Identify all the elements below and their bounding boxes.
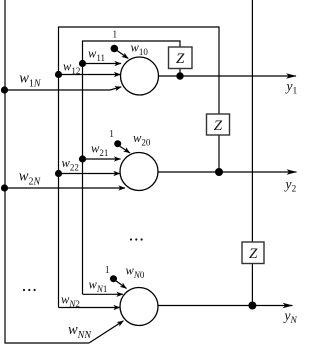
wire: right feedback riser (delayed yN) x=252 through Z3 bbox=[251, 0, 253, 306]
junction w_11 tap bbox=[79, 60, 86, 67]
junction on y2 line at Z2 riser bbox=[215, 168, 223, 176]
svg-text:1: 1 bbox=[109, 128, 115, 140]
svg-text:wN0: wN0 bbox=[126, 264, 145, 281]
bias terminal dot U1 bbox=[111, 45, 119, 53]
svg-text:yN: yN bbox=[283, 308, 298, 326]
bias input arrow into U2 bbox=[120, 146, 130, 153]
junction on y1 line at Z1 stem bbox=[176, 72, 183, 79]
ellipsis between U2 and U3 bbox=[130, 238, 143, 240]
wire: left feedback bus (delayed yN) down left edge and along bottom bbox=[5, 0, 89, 343]
delay block Z3 bbox=[242, 242, 264, 264]
svg-text:Z: Z bbox=[176, 51, 185, 67]
wire: delayed y1 bus: stem from Z1 top, run y=41, riser x=82.5 bbox=[83, 41, 181, 294]
wire: w_12 input into neuron U1 bbox=[59, 74, 121, 76]
delay block Z1 bbox=[169, 47, 193, 69]
svg-text:y1: y1 bbox=[285, 79, 298, 97]
junction w_22 tap bbox=[55, 170, 62, 177]
svg-text:w2N: w2N bbox=[19, 169, 42, 188]
bias input arrow into U1 bbox=[116, 50, 128, 59]
ellipsis on left bus bbox=[23, 289, 36, 291]
wire: delayed y2 bus: riser from Z2, top run y=27, left riser x=58.5 bbox=[59, 27, 220, 308]
wire: y1 output line bbox=[159, 75, 297, 77]
svg-text:Z: Z bbox=[214, 118, 223, 134]
svg-text:1: 1 bbox=[105, 264, 111, 276]
svg-text:1: 1 bbox=[112, 29, 118, 41]
svg-text:w10: w10 bbox=[131, 41, 149, 58]
junction w_21 tap bbox=[79, 155, 86, 162]
delay block Z2 bbox=[207, 114, 230, 135]
svg-text:wN2: wN2 bbox=[61, 293, 80, 310]
wire: Z1 output stem to y1 junction bbox=[179, 69, 181, 77]
junction w_12 tap bbox=[55, 71, 62, 78]
neuron U3 bbox=[120, 288, 158, 326]
svg-text:w21: w21 bbox=[91, 142, 108, 159]
wire: w_1N input into neuron U1 bbox=[5, 87, 122, 90]
wire: w_N1 input into neuron U3 bbox=[83, 293, 124, 295]
svg-text:w11: w11 bbox=[88, 47, 105, 64]
svg-text:Z: Z bbox=[249, 246, 258, 262]
bias input arrow into U3 bbox=[116, 281, 127, 289]
bias terminal dot U2 bbox=[114, 140, 121, 147]
wire: w_N2 input into neuron U3 bbox=[59, 307, 121, 309]
junction on yN line at Z3 riser bbox=[248, 302, 256, 310]
svg-text:w1N: w1N bbox=[19, 71, 42, 90]
wire: w_2N input into neuron U2 bbox=[5, 187, 126, 189]
neuron U1 bbox=[121, 57, 159, 95]
svg-text:wN1: wN1 bbox=[89, 278, 108, 295]
wire: yN output line bbox=[158, 305, 293, 307]
svg-text:y2: y2 bbox=[284, 177, 297, 195]
wire: y2 output line bbox=[158, 171, 297, 173]
wire: w_11 input into neuron U1 bbox=[83, 63, 122, 65]
svg-text:w20: w20 bbox=[133, 131, 151, 148]
junction w_2N tap bbox=[1, 184, 8, 191]
bias terminal dot U3 bbox=[110, 275, 117, 282]
neuron U2 bbox=[120, 153, 158, 191]
wire: w_NN input diagonal into neuron U3 bbox=[89, 321, 124, 343]
wire: w_21 input into neuron U2 bbox=[83, 158, 121, 160]
svg-text:w22: w22 bbox=[62, 156, 79, 173]
junction w_1N tap bbox=[1, 86, 8, 93]
svg-text:w12: w12 bbox=[63, 60, 80, 77]
svg-text:wNN: wNN bbox=[68, 322, 92, 341]
wire: w_22 input into neuron U2 bbox=[59, 173, 121, 175]
